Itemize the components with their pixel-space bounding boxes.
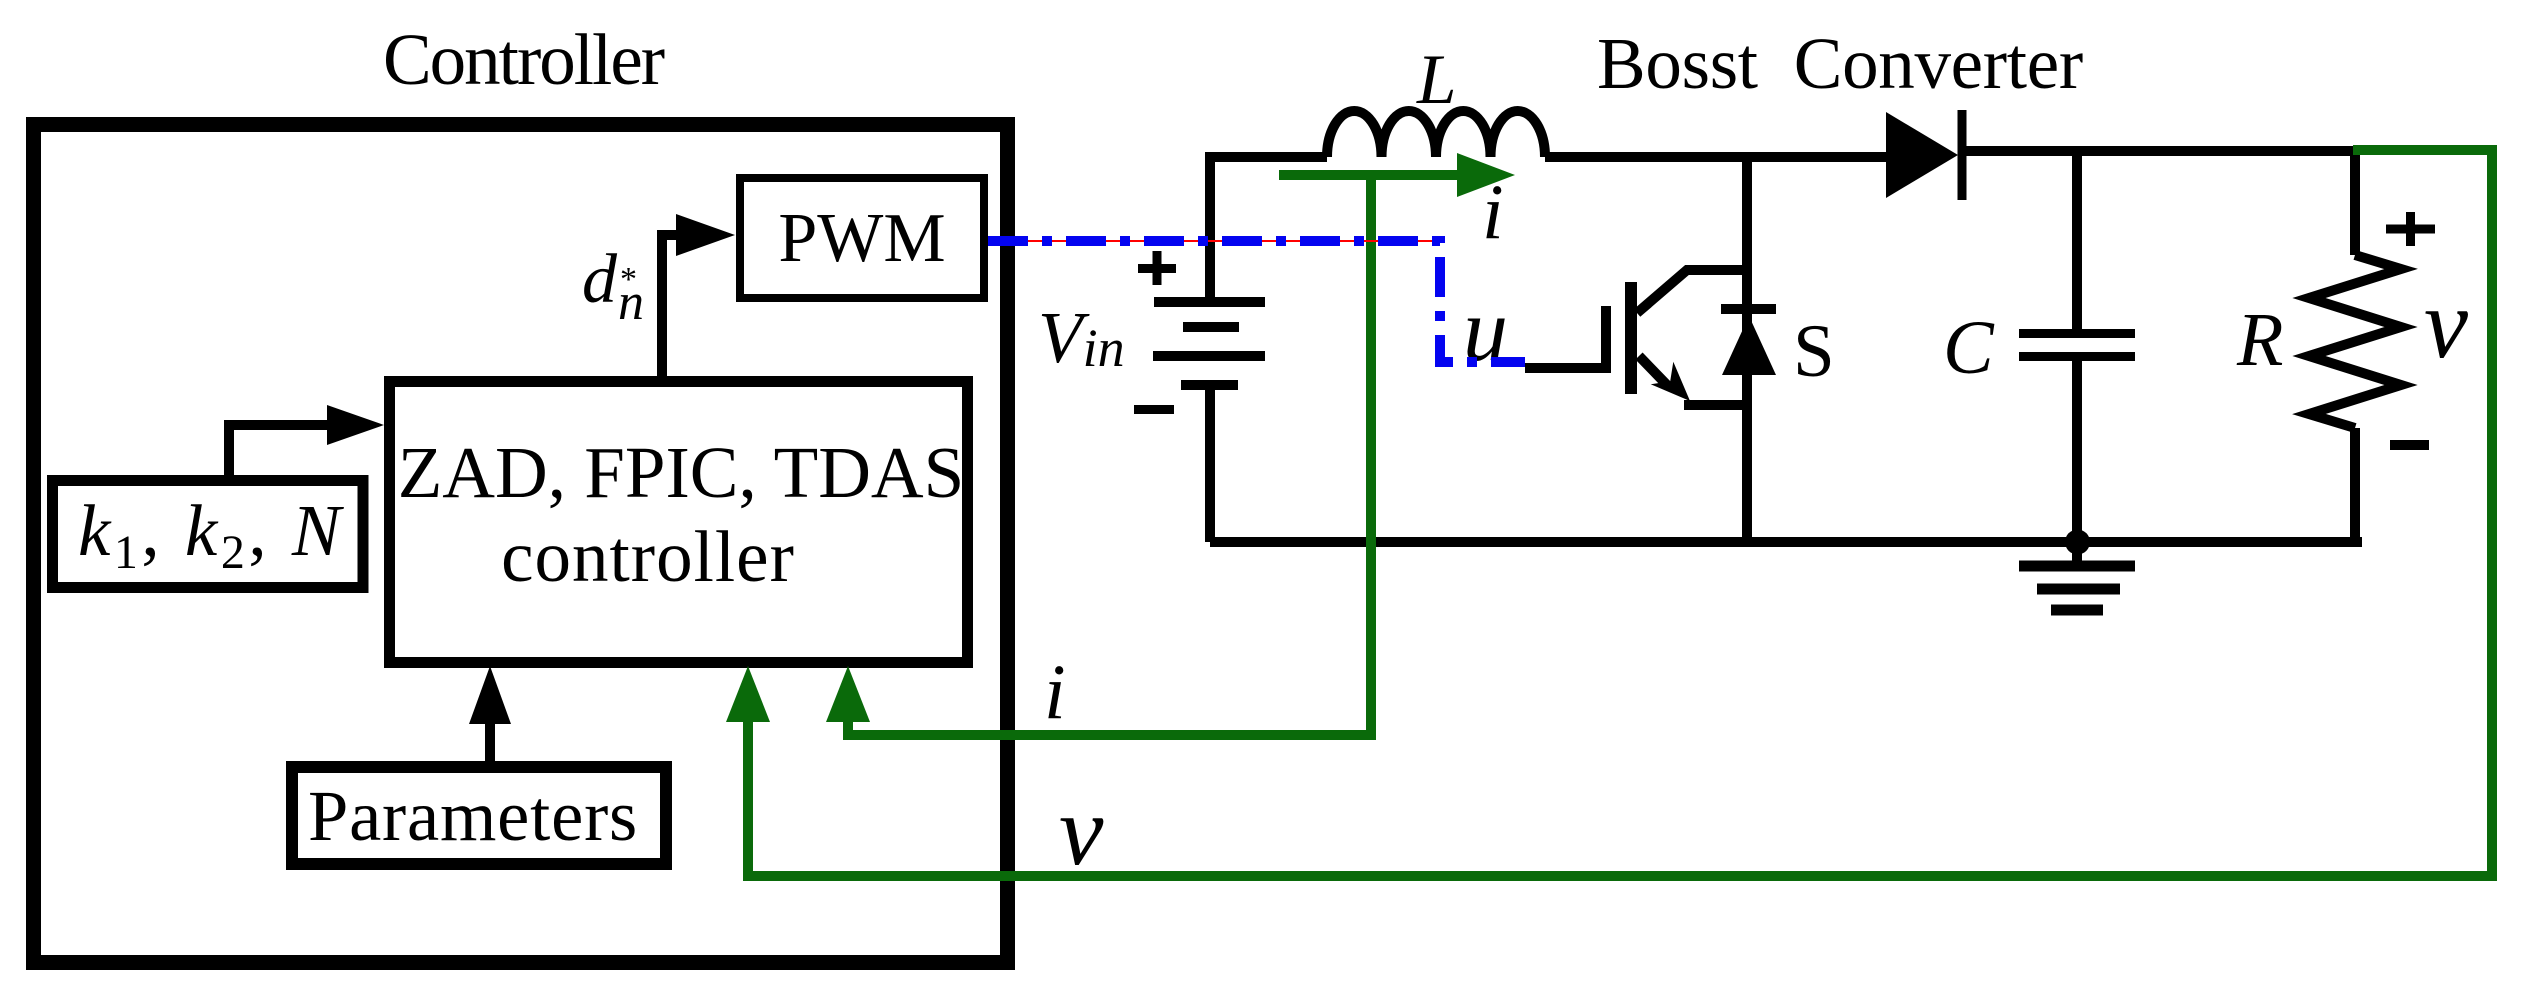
- svg-text:v: v: [1059, 775, 1104, 886]
- load R lead top: [2350, 146, 2360, 255]
- Parameters box: [292, 767, 666, 864]
- battery plate short: [1183, 322, 1239, 332]
- body diode cathode bar: [1721, 304, 1776, 314]
- svg-text:L: L: [1416, 41, 1457, 119]
- output diode cathode bar: [1958, 110, 1967, 200]
- svg-text:C: C: [1943, 306, 1995, 390]
- svg-text:d: d: [582, 241, 618, 318]
- load R lead bottom: [2350, 428, 2360, 547]
- controller outer box: [34, 125, 1008, 963]
- green arrowhead v: [726, 666, 770, 722]
- i measure arrow line: [1279, 170, 1460, 180]
- battery plate long top: [1154, 297, 1265, 307]
- svg-text:v: v: [2424, 268, 2469, 379]
- PWM box: [740, 178, 984, 298]
- arrowhead into ZAD: [327, 405, 384, 445]
- red thin line PWM to gate: [988, 240, 1438, 242]
- battery bottom lead: [1205, 385, 1215, 542]
- switch branch vertical: [1742, 157, 1752, 542]
- IGBT emitter wire: [1684, 400, 1747, 410]
- label + load: [2386, 225, 2435, 234]
- arrowhead up into ZAD: [469, 666, 511, 724]
- svg-text:n: n: [618, 274, 644, 331]
- v feedback wire: [748, 150, 2492, 876]
- capacitor top plate: [2019, 329, 2135, 338]
- wire k-box to ZAD: [229, 425, 330, 475]
- ground bar 2: [2037, 584, 2120, 595]
- IGBT gate lead: [1525, 306, 1606, 373]
- green feedback v: arrow into ZAD: [748, 150, 2492, 876]
- i feedback wire: [848, 175, 1371, 735]
- arrowhead into PWM: [676, 214, 735, 256]
- IGBT gate bar: [1625, 282, 1637, 394]
- top wire inductor to diode: [1545, 152, 1888, 162]
- label + battery: [1138, 264, 1176, 273]
- ground stub: [2072, 542, 2082, 562]
- resistor R zigzag: [2309, 255, 2401, 428]
- bottom wire: [1210, 537, 2362, 547]
- green arrowhead i: [826, 666, 870, 722]
- svg-text:Bosst Converter: Bosst Converter: [1597, 23, 2083, 104]
- inductor L: [1327, 111, 1545, 157]
- svg-text:S: S: [1793, 310, 1835, 393]
- svg-text:PWM: PWM: [778, 200, 945, 277]
- top wire diode to load: [1958, 146, 2356, 156]
- body diode triangle: [1722, 316, 1776, 375]
- svg-text:controller: controller: [501, 516, 795, 597]
- label - load: [2390, 440, 2429, 450]
- ZAD, FPIC, TDAS controller box: [390, 382, 968, 663]
- IGBT emitter branch: [1639, 356, 1667, 385]
- IGBT emitter arrowhead: [1651, 362, 1690, 401]
- junction dot: [2065, 530, 2090, 555]
- battery plate long: [1153, 351, 1265, 361]
- svg-text:Controller: Controller: [383, 19, 665, 100]
- svg-text:ZAD, FPIC, TDAS: ZAD, FPIC, TDAS: [398, 432, 965, 513]
- IGBT collector branch: [1637, 270, 1747, 313]
- ground bar 3: [2051, 605, 2103, 616]
- output diode D triangle: [1886, 112, 1958, 198]
- capacitor top lead: [2072, 151, 2082, 329]
- svg-text:Parameters: Parameters: [308, 775, 638, 856]
- wire Parameters to ZAD: [485, 720, 495, 761]
- wire d_n* ZAD to PWM: [662, 235, 680, 381]
- k1,k2,N box: [53, 481, 364, 588]
- green arrowhead current i: [1457, 153, 1515, 197]
- capacitor bottom plate: [2019, 352, 2135, 361]
- capacitor bottom lead: [2072, 361, 2082, 542]
- battery plate short bottom: [1181, 380, 1238, 390]
- ground bar 1: [2019, 561, 2135, 572]
- top wire left of inductor: [1205, 152, 1327, 162]
- battery top lead: [1205, 157, 1215, 302]
- blue dash-dot control line u: [988, 241, 1525, 362]
- svg-text:i: i: [1044, 648, 1066, 735]
- label - battery: [1134, 405, 1174, 414]
- svg-text:R: R: [2236, 298, 2283, 382]
